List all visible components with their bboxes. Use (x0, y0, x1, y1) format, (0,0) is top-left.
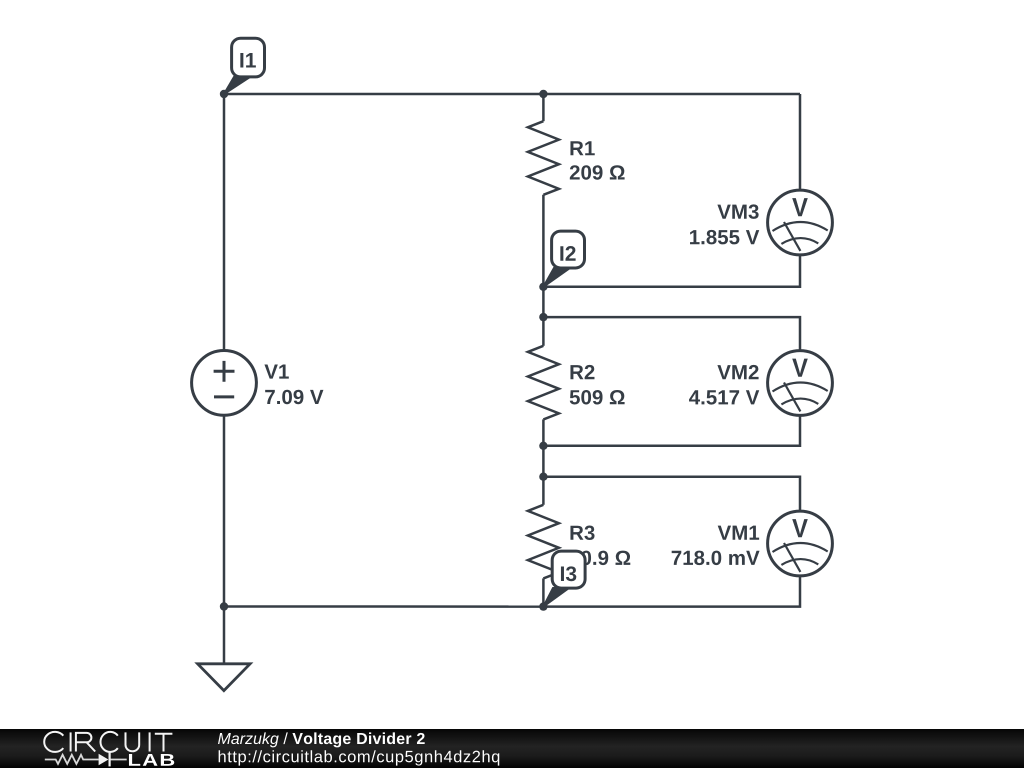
node H junction dot (220, 602, 228, 610)
current probe I2 box (552, 231, 585, 268)
VM3 value label 1.855 V (690, 230, 759, 245)
wire VM1 bottom loop (543, 576, 800, 607)
V1 value label 7.09 V (265, 390, 323, 405)
wire VM1 top loop (543, 477, 800, 511)
VM1 meter V letter (792, 519, 808, 537)
wire node E to node F (542, 446, 545, 477)
VM3 meter V letter (792, 198, 808, 216)
logo diode triangle (99, 754, 109, 766)
node E junction dot (539, 442, 547, 450)
wire R3 lead bottom to node G (542, 578, 545, 606)
node D junction dot (539, 313, 547, 321)
current probe I1 pointer (224, 77, 250, 94)
wire node C to node D (542, 287, 545, 317)
V1 name label (264, 365, 288, 379)
resistor R1 (528, 121, 559, 195)
VM2 value label 4.517 V (689, 390, 759, 404)
wire VM3 bottom loop (543, 255, 800, 287)
wire R2 lead top (542, 317, 545, 346)
voltmeter VM2 circle (768, 351, 833, 416)
R1 name label (570, 141, 594, 155)
current probe I3 text (561, 566, 576, 581)
CircuitLab logo letter T (155, 734, 173, 752)
current probe I2 text (560, 246, 575, 261)
R1 value label 209 ohm (570, 165, 625, 180)
node A junction dot (220, 90, 228, 98)
CircuitLab logo letter R (76, 733, 95, 752)
VM2 needle arcs (773, 383, 828, 405)
footer url line (219, 750, 500, 765)
CircuitLab logo letter C (44, 732, 172, 752)
voltmeter VM1 circle (768, 511, 833, 576)
current probe I3 pointer (543, 588, 569, 607)
logo diode bar (109, 752, 111, 766)
ground (198, 664, 251, 691)
wire left vertical from node A down to V1 top (223, 94, 226, 351)
voltmeter VM3 circle (768, 190, 833, 255)
wire R2 lead bottom to node E (542, 419, 545, 445)
R3 value label 80.9 ohm (570, 551, 631, 566)
VM1 name label (718, 526, 759, 540)
CircuitLab logo letter C (100, 732, 117, 752)
current probe I1 box (232, 38, 265, 77)
resistor R3 (528, 505, 559, 579)
VM3 needle arcs (773, 222, 828, 244)
current probe I3 box (552, 551, 585, 588)
R3 name label (570, 525, 594, 540)
wire VM2 top loop (543, 317, 800, 351)
node C junction dot (539, 283, 547, 291)
wire R1 lead bottom to node C (542, 195, 545, 287)
R2 value label 509 ohm (570, 390, 625, 405)
VM1 needle (784, 543, 800, 572)
wire middle vertical R1 lead top (542, 94, 545, 121)
VM3 needle (784, 222, 800, 251)
footer title: Marzukg / Voltage Divider 2 (218, 732, 279, 747)
R2 name label (570, 365, 594, 379)
CircuitLab logo letter I (149, 732, 151, 751)
CircuitLab logo text LAB (129, 754, 174, 766)
wire top horizontal from node A to top-right corner (224, 93, 800, 96)
resistor R2 (528, 346, 559, 420)
CircuitLab logo letter I (70, 732, 72, 751)
VM2 needle (784, 383, 800, 412)
wire VM2 bottom loop (543, 415, 800, 445)
wire R3 lead top (542, 477, 545, 505)
current probe I2 pointer (543, 268, 570, 287)
wire bottom horizontal (224, 605, 543, 608)
VM2 meter V letter (792, 359, 808, 377)
CircuitLab logo letter U (126, 732, 140, 751)
V1 minus sign (214, 395, 234, 398)
wire V1 bottom down to node H (223, 415, 226, 606)
node F junction dot (539, 473, 547, 481)
node G junction dot (539, 602, 547, 610)
wire node H down to ground (223, 607, 226, 664)
VM3 name label (717, 204, 758, 219)
VM1 needle arcs (773, 543, 828, 565)
current probe I1 text (240, 53, 256, 67)
VM1 value label 718.0 mV (672, 551, 760, 566)
VM2 name label (717, 365, 758, 379)
V1 plus sign (214, 361, 235, 382)
voltage source V1 circle (192, 351, 257, 416)
wire right down to VM3 top (799, 94, 802, 190)
CircuitLab logo squiggle wire (45, 755, 127, 764)
node B junction dot (539, 90, 547, 98)
